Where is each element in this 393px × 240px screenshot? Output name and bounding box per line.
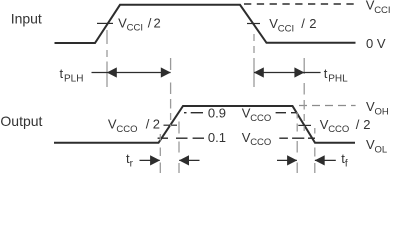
node VCCI level dashed line — [244, 3, 354, 5]
svg-text:Output: Output — [0, 113, 42, 129]
node Input waveform — [55, 5, 356, 43]
node tPLH label — [60, 66, 84, 85]
node VOH label — [366, 99, 389, 118]
svg-text:2: 2 — [153, 117, 160, 132]
node Output falling VCCO/2 tick — [298, 124, 311, 126]
svg-text:PLH: PLH — [64, 74, 83, 85]
node tPLH measurement arrow — [92, 67, 171, 77]
svg-text:t: t — [324, 66, 328, 81]
svg-text:CCI: CCI — [127, 23, 143, 34]
svg-text:2: 2 — [309, 16, 316, 31]
svg-text:CCI: CCI — [278, 24, 294, 35]
svg-text:0.9: 0.9 — [208, 106, 226, 121]
svg-text:OL: OL — [375, 144, 388, 155]
node tr measurement arrows — [140, 155, 200, 165]
node tPHL label — [324, 66, 348, 85]
svg-text:2: 2 — [154, 15, 161, 30]
node VOL label — [366, 137, 387, 156]
svg-text:r: r — [130, 159, 134, 170]
wire tf left reference dashed vertical — [296, 112, 298, 119]
svg-text:0.1: 0.1 — [208, 130, 226, 145]
node Input rising VCCI/2 tick — [97, 22, 113, 24]
wire tf right reference dashed vertical — [314, 128, 316, 134]
svg-text:/: / — [148, 15, 152, 30]
node tf measurement arrows — [277, 155, 336, 165]
svg-text:CCO: CCO — [328, 124, 349, 135]
svg-text:CCI: CCI — [374, 5, 390, 16]
node right VCCO/2 label — [320, 117, 371, 135]
wire tPHL left reference dashed vertical — [253, 34, 255, 41]
wire tPLH left reference dashed vertical — [106, 30, 108, 44]
node tPHL measurement arrow — [254, 67, 321, 77]
svg-text:OH: OH — [375, 106, 389, 117]
node tf label — [341, 151, 348, 170]
node 0.9 VCCO label — [208, 106, 271, 124]
node right VCCI/2 label — [269, 16, 316, 34]
node left VCCI/2 label — [118, 15, 161, 33]
svg-text:/: / — [356, 117, 360, 132]
svg-text:2: 2 — [363, 117, 370, 132]
node 0.1 VCCO label — [208, 130, 271, 148]
node VOH level dashed line — [299, 105, 356, 107]
svg-text:CCO: CCO — [250, 137, 271, 148]
node left VCCO/2 label — [108, 117, 160, 135]
node 0.1 VCCO dashed level — [158, 137, 315, 139]
node VCCI label — [366, 0, 391, 16]
svg-text:f: f — [345, 159, 348, 170]
node tr label — [126, 151, 134, 170]
wire tPLH right reference dashed vertical — [170, 58, 172, 70]
svg-text:t: t — [60, 66, 64, 81]
wire tr right reference dashed vertical — [178, 122, 180, 134]
svg-text:PHL: PHL — [328, 74, 348, 85]
svg-text:CCO: CCO — [116, 124, 137, 135]
node Output rising VCCO/2 tick — [164, 124, 178, 126]
svg-text:/: / — [301, 16, 305, 31]
node Input falling VCCI/2 tick — [247, 23, 260, 25]
svg-text:/: / — [146, 117, 150, 132]
node 0.9 VCCO dashed level — [184, 112, 298, 114]
node Output waveform — [54, 106, 355, 143]
wire tPHL right reference dashed vertical — [303, 58, 305, 74]
svg-text:CCO: CCO — [250, 113, 271, 124]
svg-text:0 V: 0 V — [366, 36, 386, 51]
svg-text:Input: Input — [11, 10, 42, 26]
wire tr left reference dashed vertical — [159, 134, 161, 141]
